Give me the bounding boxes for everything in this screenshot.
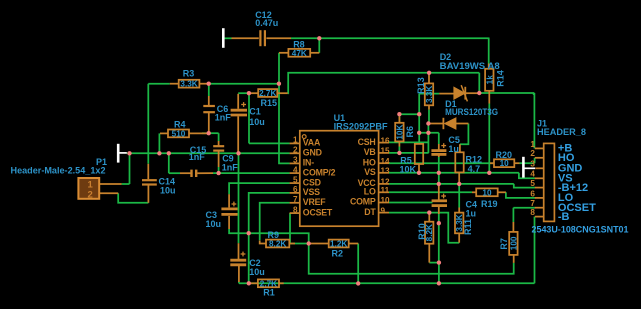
- svg-text:R13: R13: [416, 77, 426, 94]
- svg-text:100: 100: [509, 236, 518, 250]
- svg-text:2: 2: [530, 149, 535, 158]
- svg-text:R1: R1: [263, 288, 275, 298]
- svg-text:5: 5: [530, 179, 535, 188]
- svg-text:10u: 10u: [160, 185, 176, 195]
- svg-text:1.2K: 1.2K: [330, 240, 347, 249]
- svg-text:VREF: VREF: [303, 197, 326, 207]
- svg-text:510: 510: [172, 129, 186, 138]
- svg-text:HEADER_8: HEADER_8: [537, 127, 586, 137]
- svg-text:16: 16: [381, 136, 391, 145]
- svg-text:COMP/2: COMP/2: [303, 167, 336, 177]
- svg-text:10u: 10u: [249, 117, 265, 127]
- svg-text:1u: 1u: [448, 144, 459, 154]
- svg-text:R6: R6: [405, 126, 415, 138]
- svg-text:R7: R7: [499, 238, 509, 250]
- svg-text:R19: R19: [481, 199, 498, 209]
- svg-text:MURS120T3G: MURS120T3G: [445, 107, 498, 117]
- svg-text:3.3K: 3.3K: [425, 86, 434, 103]
- svg-text:0.47u: 0.47u: [255, 18, 278, 28]
- svg-text:Header-Male-2.54_1x2: Header-Male-2.54_1x2: [11, 166, 106, 176]
- svg-text:7: 7: [530, 199, 535, 208]
- svg-text:10: 10: [500, 159, 510, 168]
- svg-text:1nF: 1nF: [215, 112, 232, 122]
- svg-text:2: 2: [88, 189, 93, 200]
- svg-text:8.2K: 8.2K: [269, 240, 286, 249]
- svg-text:1: 1: [293, 136, 298, 145]
- svg-text:10u: 10u: [249, 267, 265, 277]
- svg-text:BAV19WS A8: BAV19WS A8: [440, 61, 500, 71]
- svg-text:R4: R4: [174, 120, 186, 130]
- svg-text:3: 3: [530, 160, 535, 169]
- svg-text:IRS2092PBF: IRS2092PBF: [334, 122, 389, 132]
- svg-text:R2: R2: [332, 248, 344, 258]
- svg-text:DT: DT: [364, 207, 376, 217]
- svg-text:1u: 1u: [466, 208, 477, 218]
- svg-text:13: 13: [381, 167, 391, 176]
- svg-text:9: 9: [381, 206, 386, 215]
- svg-text:7: 7: [293, 195, 298, 204]
- svg-text:1k: 1k: [485, 75, 494, 85]
- svg-text:6: 6: [530, 189, 535, 198]
- svg-text:2: 2: [293, 146, 298, 155]
- svg-text:10: 10: [381, 196, 391, 205]
- svg-text:3.3K: 3.3K: [180, 80, 197, 89]
- svg-text:3: 3: [293, 156, 298, 165]
- svg-text:8: 8: [530, 208, 535, 217]
- svg-text:6: 6: [293, 185, 298, 194]
- svg-text:R15: R15: [261, 98, 278, 108]
- svg-text:1nF: 1nF: [189, 152, 206, 162]
- svg-text:4: 4: [530, 170, 535, 179]
- svg-text:GND: GND: [303, 148, 322, 158]
- svg-text:R14: R14: [495, 70, 505, 87]
- svg-text:5: 5: [293, 175, 298, 184]
- svg-text:1nF: 1nF: [222, 162, 239, 172]
- svg-text:10: 10: [482, 188, 492, 197]
- svg-text:VB: VB: [364, 147, 376, 157]
- svg-text:R3: R3: [183, 68, 195, 78]
- svg-text:-B: -B: [558, 211, 570, 223]
- svg-text:R10: R10: [417, 223, 427, 240]
- svg-text:LO: LO: [364, 187, 376, 197]
- svg-text:VSS: VSS: [303, 187, 320, 197]
- svg-text:2543U-108CNG1SNT01: 2543U-108CNG1SNT01: [532, 224, 629, 234]
- svg-text:2.7K: 2.7K: [259, 89, 276, 98]
- svg-text:VS: VS: [364, 167, 376, 177]
- svg-text:4: 4: [293, 165, 298, 174]
- svg-text:1: 1: [530, 140, 535, 149]
- svg-text:R8: R8: [293, 40, 305, 50]
- svg-text:CSD: CSD: [303, 177, 321, 187]
- svg-text:CSH: CSH: [358, 137, 376, 147]
- svg-text:14: 14: [381, 157, 391, 166]
- svg-text:11: 11: [381, 186, 390, 195]
- svg-text:VAA: VAA: [303, 138, 321, 148]
- svg-text:IN-: IN-: [303, 158, 314, 168]
- svg-text:4.7: 4.7: [468, 164, 481, 174]
- svg-text:10K: 10K: [400, 165, 417, 175]
- svg-text:10K: 10K: [395, 125, 404, 140]
- svg-text:10u: 10u: [206, 219, 222, 229]
- svg-text:R20: R20: [496, 150, 513, 160]
- svg-text:R9: R9: [268, 230, 280, 240]
- svg-text:HO: HO: [363, 157, 376, 167]
- svg-text:OCSET: OCSET: [303, 207, 333, 217]
- svg-text:COMP: COMP: [350, 197, 376, 207]
- svg-text:C1: C1: [249, 106, 261, 116]
- svg-text:R11: R11: [463, 219, 473, 235]
- svg-text:8: 8: [293, 205, 298, 214]
- svg-text:15: 15: [381, 147, 391, 156]
- svg-text:47K: 47K: [292, 49, 307, 58]
